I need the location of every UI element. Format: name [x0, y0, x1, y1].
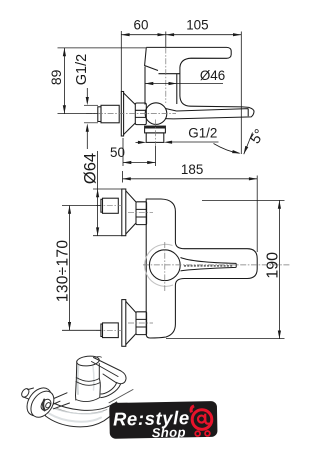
- svg-text:60: 60: [134, 18, 149, 33]
- svg-text:105: 105: [186, 18, 208, 33]
- svg-text:130÷170: 130÷170: [54, 240, 71, 302]
- svg-text:5°: 5°: [247, 127, 268, 147]
- svg-text:50: 50: [110, 145, 125, 160]
- svg-text:G1/2: G1/2: [74, 54, 90, 85]
- svg-text:Shop: Shop: [152, 425, 186, 441]
- svg-text:G1/2: G1/2: [188, 126, 217, 141]
- svg-text:Ø64: Ø64: [82, 153, 100, 184]
- svg-text:190: 190: [265, 252, 282, 279]
- svg-text:185: 185: [181, 162, 203, 177]
- svg-text:Ø46: Ø46: [200, 68, 225, 83]
- svg-text:89: 89: [48, 69, 64, 85]
